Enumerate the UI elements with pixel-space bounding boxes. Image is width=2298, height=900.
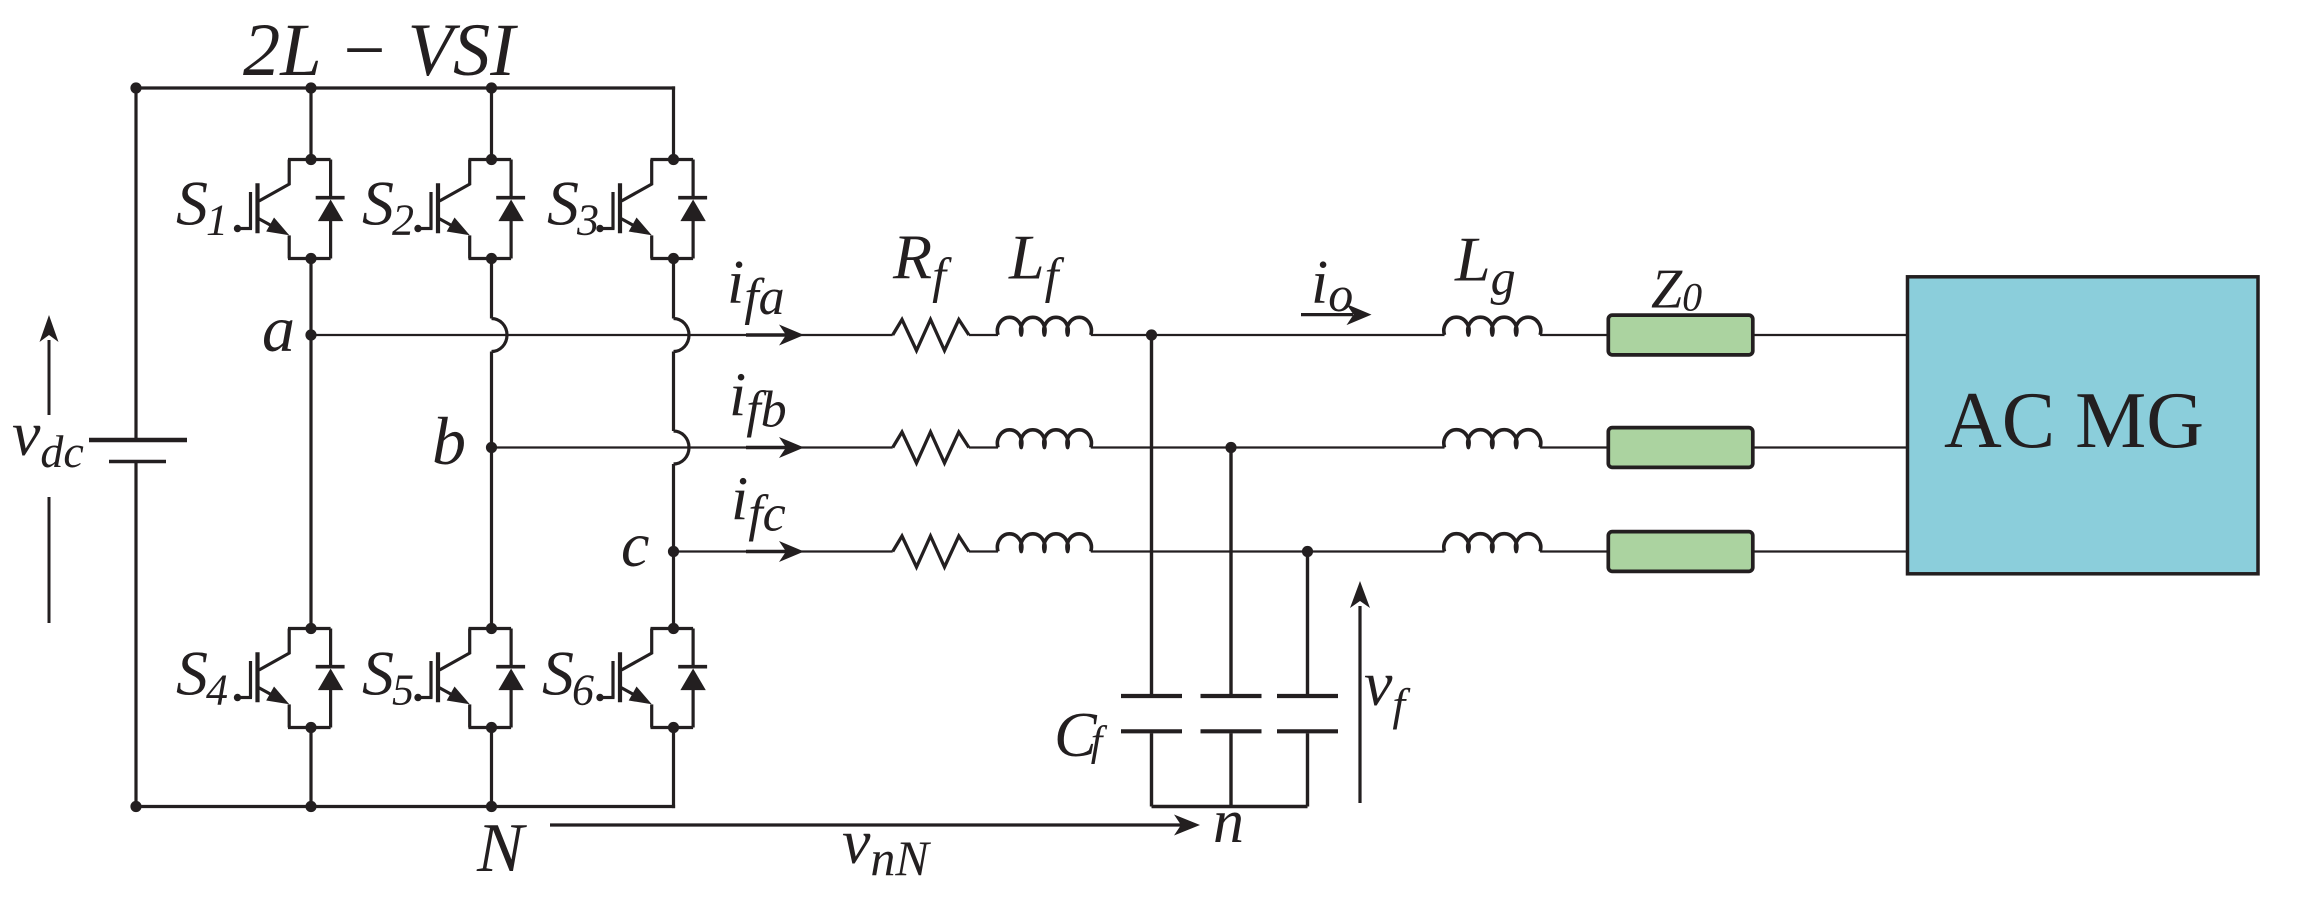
wire leg b top	[490, 88, 493, 160]
IGBT switch S4 with antiparallel diode	[234, 623, 345, 733]
wire phase a Rf-Lf	[969, 334, 998, 336]
wire phase c Z0 to AC MG	[1755, 550, 1908, 552]
capacitor Cf phase a	[1150, 335, 1153, 694]
junction dot phase a cap tap	[1146, 329, 1157, 340]
wire phase b Z0 to AC MG	[1755, 446, 1908, 448]
wire phase c Lf to Lg	[1091, 550, 1445, 552]
inductor Lg phase b	[1444, 430, 1541, 448]
vdc arrow shaft upper	[48, 340, 51, 415]
resistor Rf phase a	[893, 320, 969, 351]
current arrow i_o	[1301, 313, 1353, 316]
wire leg a bottom	[309, 728, 312, 807]
wire leg c top	[672, 86, 675, 159]
IGBT switch S5 with antiparallel diode	[414, 623, 525, 733]
IGBT switch S1 with antiparallel diode	[234, 154, 345, 264]
IGBT switch S2 with antiparallel diode	[414, 154, 525, 264]
wire phase b Lg-Z0	[1540, 446, 1608, 448]
junction dot bottom rail leg a	[305, 801, 316, 812]
wire phase b from node to Rf	[492, 446, 893, 448]
junction dot phase b cap tap	[1225, 442, 1236, 453]
wire leg a mid	[309, 259, 312, 336]
wire left dc rail lower	[134, 463, 137, 808]
node c	[668, 546, 679, 557]
junction dot top rail leg b	[486, 82, 497, 93]
wire phase a Lf to Lg	[1091, 334, 1445, 336]
vdc arrow head	[40, 315, 59, 342]
svg-text:c: c	[621, 509, 649, 580]
inductor Lg phase a	[1444, 317, 1541, 335]
wire phase b Rf-Lf	[969, 446, 998, 448]
inductor Lf phase c	[997, 534, 1091, 552]
wire phase c Rf-Lf	[969, 550, 998, 552]
IGBT switch S6 with antiparallel diode	[596, 623, 707, 733]
current arrow i_fb	[746, 446, 788, 449]
current arrow i_fc	[746, 550, 788, 553]
wire left dc rail upper	[134, 86, 137, 438]
node b	[486, 442, 497, 453]
wire phase b Lf to Lg	[1091, 446, 1445, 448]
node a	[305, 329, 316, 340]
junction dot top-left rail	[130, 82, 141, 93]
wire top dc rail	[134, 86, 675, 89]
capacitor Cf phase c	[1306, 552, 1309, 695]
current arrow i_fa	[746, 333, 788, 336]
svg-text:AC MG: AC MG	[1944, 377, 2204, 465]
junction dot bottom-left rail	[130, 801, 141, 812]
wire phase c Lg-Z0	[1540, 550, 1608, 552]
wire leg b mid with hop over phase a	[490, 259, 493, 319]
wire leg a lower	[309, 335, 312, 629]
wire leg c mid with hops	[672, 259, 675, 319]
resistor Rf phase b	[893, 432, 969, 463]
inductor Lf phase a	[997, 317, 1091, 335]
impedance Z0 phase a	[1608, 315, 1753, 355]
wire leg b bottom	[490, 728, 493, 807]
svg-text:n: n	[1213, 788, 1244, 856]
svg-text:N: N	[476, 810, 527, 887]
wire leg c lower	[672, 552, 675, 629]
wire leg a top	[309, 88, 312, 160]
dc source vdc short plate	[109, 460, 166, 464]
svg-text:b: b	[432, 403, 466, 479]
junction dot top rail leg a	[305, 82, 316, 93]
capacitor Cf phase b	[1229, 448, 1232, 695]
arrow vnN	[550, 823, 1182, 826]
node n bus wire	[1152, 805, 1308, 808]
block AC MG	[1908, 277, 2259, 574]
svg-text:2L − VSI: 2L − VSI	[243, 9, 518, 92]
wire leg b lower	[490, 448, 493, 629]
wire bottom dc rail	[134, 805, 675, 808]
wire phase c from node to Rf	[674, 550, 893, 552]
svg-text:a: a	[262, 293, 295, 366]
arrow vf	[1358, 606, 1361, 803]
junction dot phase c cap tap	[1302, 546, 1313, 557]
wire phase a Z0 to AC MG	[1755, 334, 1908, 336]
impedance Z0 phase c	[1608, 532, 1753, 572]
wire phase a from node to Rf	[311, 334, 893, 336]
resistor Rf phase c	[893, 536, 969, 567]
wire phase a Lg-Z0	[1540, 334, 1608, 336]
vdc arrow shaft lower	[48, 497, 51, 623]
impedance Z0 phase b	[1608, 428, 1753, 468]
IGBT switch S3 with antiparallel diode	[596, 154, 707, 264]
dc source vdc long plate	[89, 438, 187, 443]
inductor Lg phase c	[1444, 534, 1541, 552]
wire leg c bottom	[672, 728, 675, 809]
junction dot bottom rail leg b	[486, 801, 497, 812]
inductor Lf phase b	[997, 430, 1091, 448]
